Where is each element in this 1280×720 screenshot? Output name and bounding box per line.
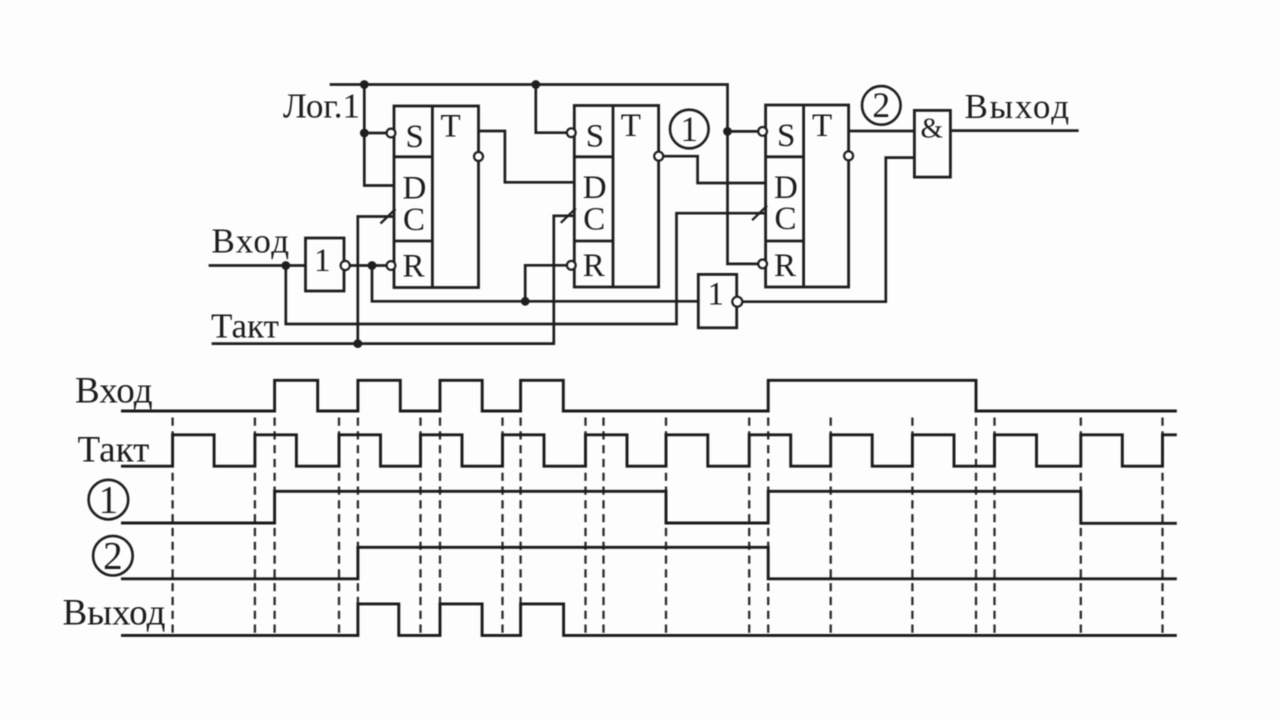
grid dashed lines: [173, 418, 1163, 637]
svg-text:Выход: Выход: [965, 87, 1071, 126]
svg-text:1: 1: [99, 478, 119, 521]
wire rail to S3/R3: [728, 131, 759, 264]
label node 1 (timing): [89, 478, 129, 521]
svg-text:1: 1: [314, 243, 331, 279]
svg-text:Такт: Такт: [78, 430, 150, 471]
svg-text:&: &: [921, 113, 944, 145]
svg-text:S: S: [586, 119, 604, 155]
inverter DD2 body: [698, 274, 736, 327]
svg-text:1: 1: [708, 277, 725, 313]
waveform node2: [121, 547, 1177, 579]
pin circle S3: [758, 127, 767, 136]
junction dot S3 branch: [723, 127, 732, 136]
pin circle Q3-inv: [844, 151, 853, 160]
wire Vhod input: [210, 264, 306, 267]
svg-text:T: T: [441, 109, 461, 145]
wire NOT1 out to R1: [350, 264, 385, 267]
flip-flop U2 body: [574, 106, 658, 288]
wire Log1 rail: [331, 85, 728, 132]
wire rail drop to S2: [536, 85, 566, 133]
pin circle NOT2 out: [732, 297, 742, 307]
pin circle Q2-inv: [654, 152, 663, 161]
svg-text:S: S: [777, 118, 795, 154]
flip-flop U1 body: [394, 106, 479, 288]
svg-text:1: 1: [680, 109, 698, 149]
junction dot R1 branch: [368, 261, 377, 270]
junction dot Takt branch: [353, 339, 362, 348]
svg-text:R: R: [583, 248, 605, 284]
node 2 circle: [862, 85, 901, 125]
pin circle S2: [567, 128, 576, 137]
pin circle Q1-inv: [474, 152, 483, 161]
wire R chain jog to R2: [525, 265, 565, 301]
wire Takt line: [213, 216, 574, 344]
wire AND output Vyhod: [950, 129, 1077, 132]
svg-text:T: T: [621, 108, 641, 144]
svg-text:C: C: [775, 201, 797, 237]
svg-text:S: S: [406, 119, 424, 155]
pin circle R2: [567, 261, 576, 270]
svg-text:2: 2: [103, 535, 123, 578]
junction dot rail-S1: [360, 80, 369, 89]
svg-text:C: C: [583, 202, 605, 238]
waveform Vyhod: [121, 604, 1177, 636]
junction dot S1 branch: [360, 129, 369, 138]
junction dot R2 branch: [521, 297, 530, 306]
wire Q3 to AND input 1: [849, 130, 915, 133]
wire rail drop to S1/D1: [364, 85, 394, 186]
svg-text:Выход: Выход: [63, 593, 166, 634]
svg-text:Лог.1: Лог.1: [283, 87, 360, 126]
svg-text:R: R: [774, 248, 796, 284]
and-gate DD3 body: [914, 110, 950, 177]
wire Q2-inv to D3: [664, 156, 766, 183]
wire NOT2 out to AND input 2: [742, 158, 914, 302]
svg-text:2: 2: [872, 85, 890, 125]
wire Takt to C1: [358, 217, 394, 344]
waveform Takt: [121, 435, 1177, 466]
svg-text:R: R: [403, 249, 425, 285]
svg-text:Такт: Такт: [211, 307, 279, 346]
svg-text:Вход: Вход: [212, 222, 291, 261]
pin circle S1: [387, 129, 396, 138]
node 1 circle: [670, 109, 709, 149]
junction dot rail-S2: [531, 80, 540, 89]
pin circle NOT1 out: [341, 261, 350, 270]
waveform node1: [121, 491, 1177, 523]
flip-flop U3 body: [766, 105, 849, 287]
dynamic-input slash C3: [752, 206, 767, 221]
wire Q1 to D2: [479, 131, 575, 182]
waveform Vhod: [121, 380, 1177, 411]
wire Vhod to C3: [286, 213, 766, 324]
wire R chain to NOT2: [372, 266, 698, 302]
pin circle R1: [387, 261, 396, 270]
svg-text:Вход: Вход: [75, 371, 153, 412]
inverter DD1 body: [306, 238, 345, 291]
label node 2 (timing): [93, 535, 133, 578]
svg-text:T: T: [812, 108, 832, 144]
svg-text:C: C: [403, 202, 425, 238]
dynamic-input slash C2: [561, 208, 576, 223]
junction dot Vhod branch: [281, 261, 290, 270]
pin circle R3: [758, 260, 767, 269]
dynamic-input slash C1: [381, 209, 396, 224]
